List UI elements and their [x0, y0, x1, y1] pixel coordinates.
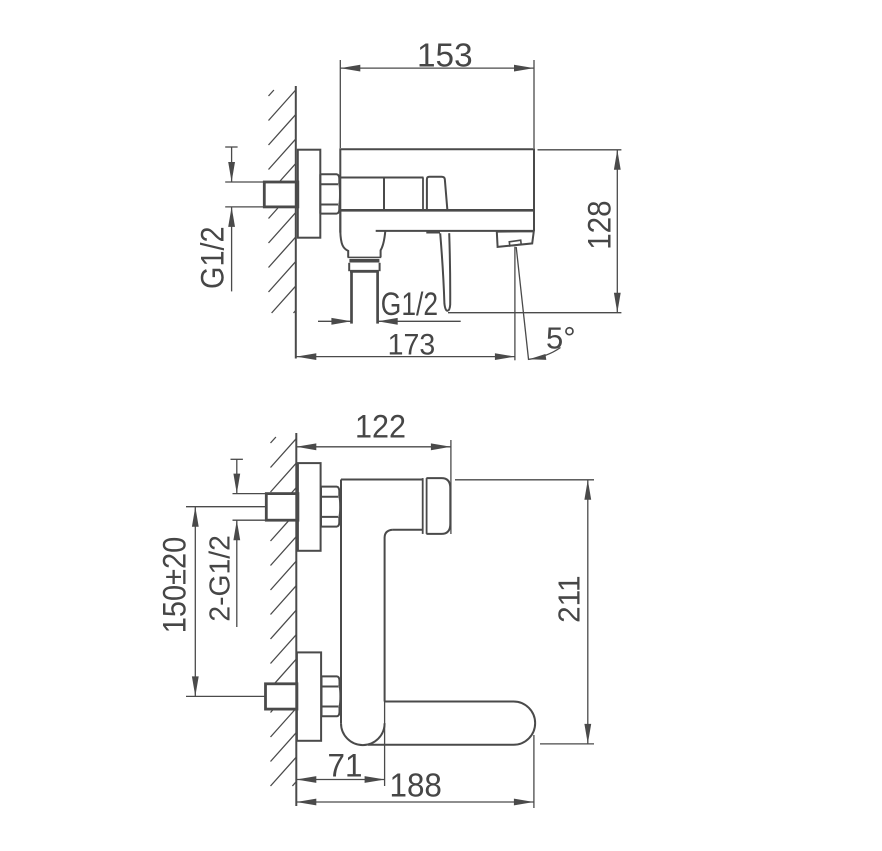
body-tube left edge	[340, 480, 342, 724]
svg-text:G1/2: G1/2	[381, 286, 438, 322]
svg-text:173: 173	[388, 329, 436, 362]
spout nut dark band	[349, 259, 379, 263]
valve flange line	[348, 256, 382, 258]
dimension 71	[296, 702, 384, 787]
spout valve right profile	[381, 231, 386, 257]
svg-text:128: 128	[582, 200, 618, 249]
hex mounting nut (top view)	[320, 174, 340, 213]
shower hose outlet	[497, 231, 534, 247]
dimension 211	[455, 480, 594, 744]
handle cap (top view)	[427, 177, 448, 211]
5 deg arc with arrow	[529, 348, 561, 360]
upper nipple extension lines	[233, 494, 267, 521]
dimension 153	[340, 36, 534, 148]
mixer body (front view)	[341, 478, 427, 534]
cartridge pipe lines inside body	[340, 178, 423, 211]
wall hatching (front view)	[271, 437, 297, 786]
upper escutcheon plate	[298, 463, 321, 551]
bottom tube top edge	[385, 701, 514, 703]
svg-text:122: 122	[355, 408, 406, 444]
handle lever collar line	[426, 231, 440, 233]
wall surface line (front view)	[295, 433, 297, 806]
dimension 128	[448, 150, 621, 313]
bottom tube right end cap	[514, 702, 536, 745]
wall escutcheon plate (top view)	[298, 150, 321, 238]
outlet axis vertical reference	[514, 247, 516, 361]
body underside line B	[376, 230, 534, 232]
body bottom thick line A	[340, 209, 534, 212]
tube right edge	[384, 538, 386, 702]
label 5 degrees	[546, 321, 576, 356]
upper hex nut	[321, 487, 340, 527]
dimension 2-G1/2	[205, 459, 243, 627]
svg-text:2-G1/2: 2-G1/2	[205, 535, 237, 621]
spout outlet pipe	[352, 271, 378, 323]
upper inlet nipple	[266, 494, 298, 521]
dimension 188	[296, 735, 534, 808]
wall surface line (top view)	[295, 86, 297, 359]
lower escutcheon plate	[297, 652, 321, 740]
body end cap	[426, 478, 450, 534]
inner fillet body to tube	[385, 530, 393, 538]
handle lever blade	[440, 233, 450, 311]
mixer body outline (top view)	[340, 149, 534, 232]
dimension 150±20	[157, 507, 266, 697]
svg-text:71: 71	[328, 747, 363, 783]
svg-text:153: 153	[417, 36, 473, 73]
svg-text:211: 211	[553, 576, 587, 623]
dimension 122	[296, 408, 451, 534]
lower inlet nipple	[266, 684, 297, 709]
spout nut body	[349, 263, 379, 272]
svg-text:G1/2: G1/2	[195, 226, 231, 289]
dimension G1/2 (left, top view)	[195, 147, 238, 291]
svg-text:5°: 5°	[546, 321, 576, 356]
lower hex nut	[322, 676, 341, 716]
extension lines of G1/2 nipple	[225, 182, 264, 207]
outlet notch	[509, 240, 521, 246]
bottom tube bottom edge	[368, 744, 514, 746]
dimension 173	[296, 329, 515, 362]
spout valve left profile	[340, 210, 348, 257]
inlet pipe nipple (top view)	[264, 182, 298, 207]
outlet tilted axis 5 deg	[516, 247, 528, 360]
dimension G1/2 (spout, top view)	[318, 286, 461, 325]
svg-text:188: 188	[390, 766, 442, 803]
tube bottom U end	[341, 723, 385, 745]
wall hatching (top view)	[269, 90, 296, 313]
svg-text:150±20: 150±20	[157, 537, 193, 633]
